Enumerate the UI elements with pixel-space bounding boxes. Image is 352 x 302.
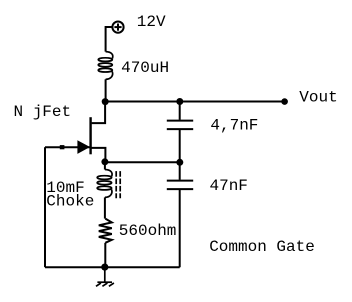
wire 4,7nF bottom to source line <box>179 129 181 162</box>
wire source node to 47nF branch <box>105 161 180 163</box>
wire choke to resistor <box>104 197 106 218</box>
choke core dashed lines <box>116 171 120 198</box>
wire source node down to choke <box>104 162 106 170</box>
wire Vout rail to 4,7nF top <box>179 102 181 120</box>
svg-text:12V: 12V <box>137 13 166 31</box>
wire gate <box>45 146 90 148</box>
wire bottom rail <box>45 266 180 268</box>
node junction dot at 4,7nF branch <box>176 98 183 105</box>
svg-text:4,7nF: 4,7nF <box>210 117 258 135</box>
svg-text:560ohm: 560ohm <box>119 222 177 240</box>
node Vout terminal dot <box>281 98 288 105</box>
svg-text:470uH: 470uH <box>121 59 169 77</box>
ground <box>96 267 114 286</box>
node drain junction dot <box>102 98 109 105</box>
wire from 12V supply to main rail corner <box>106 27 112 52</box>
svg-text:N jFet: N jFet <box>14 103 72 121</box>
node source junction dot <box>101 158 108 165</box>
node ground junction dot <box>101 264 108 271</box>
svg-text:Choke: Choke <box>46 193 94 211</box>
wire left gate loop vertical <box>44 147 46 267</box>
inductor L2 10mF choke <box>97 170 112 198</box>
wire drain node to Vout <box>105 101 284 103</box>
inductor L1 470uH <box>98 52 112 80</box>
wire resistor to bottom rail <box>104 243 106 267</box>
svg-text:Common Gate: Common Gate <box>209 238 315 256</box>
resistor R1 560ohm <box>99 219 112 243</box>
wire 47nF bottom to bottom rail <box>179 189 181 267</box>
svg-text:Vout: Vout <box>299 89 337 107</box>
wire source line to 47nF top <box>179 162 181 180</box>
capacitor C1 4,7nF <box>167 121 193 130</box>
power supply +12V symbol <box>112 22 123 33</box>
svg-text:47nF: 47nF <box>210 177 248 195</box>
node junction dot at 47nF branch <box>176 159 183 166</box>
transistor Q1 N-JFET <box>77 102 105 162</box>
junction tick on gate wire <box>60 145 65 149</box>
capacitor C2 47nF <box>167 181 193 190</box>
wire inductor to drain node <box>105 79 107 101</box>
